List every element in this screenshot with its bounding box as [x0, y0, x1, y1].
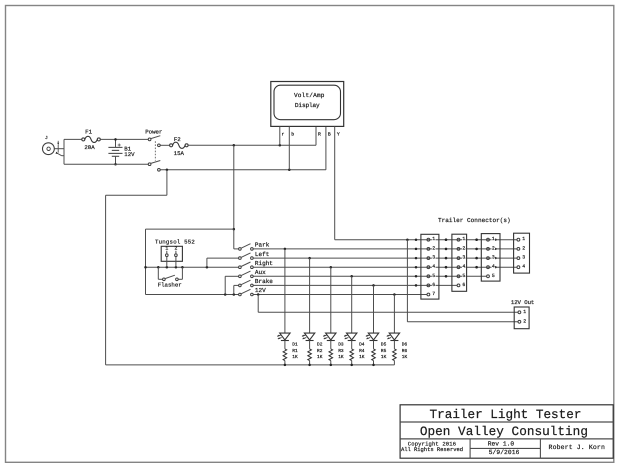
wire R4 to rail [351, 361, 353, 365]
junction dots after connector 3 pins [494, 239, 496, 269]
wire R6 to rail [393, 361, 395, 365]
display pin r wire [279, 126, 281, 145]
svg-text:F2: F2 [174, 136, 181, 143]
wire row 7 to connectors [253, 294, 427, 296]
junction return rail / ground drop [166, 169, 169, 172]
svg-text:5: 5 [432, 273, 435, 279]
svg-text:1K: 1K [338, 355, 344, 360]
LED D2 branch wire [309, 258, 311, 333]
svg-text:Flasher: Flasher [158, 281, 182, 288]
wire D3 to R3 [330, 341, 332, 349]
svg-text:J: J [45, 136, 48, 141]
switch Brake [239, 278, 274, 287]
wire ground return loop to LED rail [106, 170, 167, 365]
wire Aux switch feed riser [225, 276, 238, 294]
wire jack tip to junction [54, 148, 64, 150]
labels D3 R3 1K [338, 342, 344, 361]
labels D1 R1 1K [292, 343, 298, 361]
svg-text:5/9/2016: 5/9/2016 [489, 449, 520, 456]
svg-text:7: 7 [432, 291, 435, 297]
connector P2 (6-pin) [452, 234, 467, 291]
svg-text:5: 5 [462, 273, 465, 279]
svg-text:Park: Park [255, 242, 270, 249]
svg-text:12V Out: 12V Out [511, 299, 535, 306]
LED D4 [344, 333, 357, 340]
wire row 6 to connectors [253, 284, 457, 286]
svg-text:Open Valley Consulting: Open Valley Consulting [420, 424, 588, 439]
svg-text:1K: 1K [381, 355, 387, 360]
wire row1 to 12V-Out pin 2 [407, 240, 518, 322]
wire top rail to fuse F1 [64, 138, 82, 140]
switch Left [239, 251, 270, 260]
connector P3 (5-pin) [481, 234, 500, 282]
LED D5 [366, 333, 379, 340]
svg-text:r: r [282, 133, 285, 138]
junction flasher row taps [144, 266, 208, 269]
wire D2 to R2 [309, 341, 311, 349]
wire bottom feed row to 12V switch [146, 294, 239, 296]
svg-text:R1: R1 [292, 349, 298, 354]
svg-text:D5: D5 [381, 343, 387, 348]
junction bottom feed / Aux riser [224, 293, 227, 296]
LED D1 branch wire [284, 249, 286, 333]
LED D4 branch wire [351, 276, 353, 333]
svg-text:12V: 12V [255, 287, 266, 294]
svg-text:D6: D6 [402, 342, 408, 348]
svg-text:Tungsol 552: Tungsol 552 [155, 238, 195, 245]
svg-text:1: 1 [523, 309, 526, 315]
switch Aux [239, 269, 267, 278]
wire power switch to fuse F2 [160, 144, 169, 146]
wire left branch to flasher feed [146, 229, 234, 294]
svg-text:B: B [328, 132, 331, 138]
svg-text:Robert J. Korn: Robert J. Korn [549, 444, 605, 451]
svg-text:1K: 1K [317, 355, 323, 360]
svg-text:1: 1 [492, 236, 495, 242]
svg-text:3: 3 [432, 255, 435, 261]
junction F2 rail / feed down [233, 144, 236, 147]
wire flasher pin 2 to row [175, 257, 177, 268]
svg-text:D2: D2 [317, 342, 323, 348]
svg-text:b: b [291, 132, 294, 138]
LED D6 [387, 333, 400, 340]
connector P1 (7-pin) [421, 234, 439, 299]
svg-text:1K: 1K [402, 355, 408, 360]
labels D4 R4 1K [359, 343, 365, 361]
svg-text:1: 1 [462, 236, 465, 242]
svg-text:5: 5 [492, 273, 495, 279]
svg-text:2: 2 [432, 245, 435, 251]
wire F2 rail to display pin R [188, 144, 316, 146]
svg-text:D3: D3 [338, 342, 344, 348]
svg-text:Left: Left [255, 251, 269, 258]
connector P5 12V Out [511, 299, 535, 329]
wire 12V switched to 12V-Out pin 1 [258, 295, 518, 313]
resistor R5 [372, 349, 376, 361]
wire row 3 to connectors [253, 257, 517, 259]
svg-text:1K: 1K [359, 355, 365, 360]
svg-text:3: 3 [462, 255, 465, 261]
svg-text:4: 4 [462, 264, 465, 270]
svg-text:D1: D1 [292, 343, 298, 348]
wire R3 to rail [330, 361, 332, 365]
svg-text:R6: R6 [402, 348, 408, 354]
resistor R1 [283, 349, 287, 361]
junction row1 / 12V-out drop [406, 238, 409, 241]
svg-text:6: 6 [432, 282, 435, 288]
svg-text:1: 1 [432, 236, 435, 242]
svg-text:4: 4 [522, 264, 525, 270]
flasher module FL1 Tungsol 552 [155, 238, 195, 261]
wire F1 to power switch [100, 138, 148, 140]
wire LED bottom rail [106, 364, 395, 366]
junction station dots at x416 [415, 238, 418, 286]
labels D5 R5 1K [381, 343, 387, 361]
battery B1 [108, 139, 135, 164]
svg-text:Trailer Connector(s): Trailer Connector(s) [438, 217, 511, 224]
resistor R2 [308, 349, 312, 361]
svg-text:R: R [318, 132, 321, 138]
connector J1 power jack [43, 136, 62, 156]
svg-text:6: 6 [462, 282, 465, 288]
display pin b wire [288, 126, 290, 169]
junction battery bottom [114, 163, 117, 166]
resistor R6 [393, 349, 397, 361]
junction 12V row / 12V-out tap [257, 293, 260, 296]
svg-text:1: 1 [165, 246, 168, 252]
labels D6 R6 1K [402, 342, 408, 361]
svg-text:4: 4 [432, 264, 435, 270]
wire flasher row (Right switch feed) [146, 266, 239, 268]
svg-text:R4: R4 [359, 349, 365, 354]
junction dots between connector 2 and 3 [475, 238, 478, 268]
switch Right [239, 260, 273, 269]
LED branch taps [284, 248, 396, 296]
switch Park [239, 242, 270, 251]
wire row 4 to connectors [253, 266, 517, 268]
svg-text:R5: R5 [381, 349, 387, 354]
svg-text:Power: Power [145, 128, 162, 135]
svg-text:2: 2 [492, 245, 495, 251]
wire R2 to rail [309, 361, 311, 365]
svg-text:All Rights Reserved: All Rights Reserved [401, 446, 463, 453]
LED D1 [277, 333, 290, 340]
label copyright [401, 441, 463, 453]
fuse F1 [82, 129, 101, 151]
junction LED rail taps [284, 364, 375, 367]
svg-text:Display: Display [295, 102, 320, 109]
junction F2 rail / display pin r [279, 144, 282, 147]
svg-text:Right: Right [255, 260, 273, 267]
wire row 2 to connectors [253, 248, 517, 250]
svg-text:4: 4 [492, 264, 495, 270]
switch S2 Flasher bypass [158, 267, 183, 288]
wire D6 to R6 [393, 341, 395, 349]
svg-text:Trailer Light Tester: Trailer Light Tester [430, 407, 582, 422]
connector P4 (4-pin) [514, 233, 530, 273]
LED D5 branch wire [373, 285, 375, 333]
wire Brake switch feed riser [234, 285, 239, 294]
wire row 1 to connectors [335, 239, 517, 241]
svg-text:R3: R3 [338, 348, 344, 354]
svg-text:R2: R2 [317, 348, 323, 354]
fuse F2 [170, 136, 189, 157]
svg-text:12V: 12V [124, 151, 135, 158]
wire power return rail to display pin B [160, 169, 326, 171]
svg-text:2: 2 [523, 318, 526, 324]
display pin labels r b R B Y [282, 132, 340, 138]
svg-text:Volt/Amp: Volt/Amp [294, 92, 325, 99]
svg-text:D4: D4 [359, 343, 365, 348]
svg-text:3: 3 [492, 255, 495, 261]
svg-text:Rev 1.0: Rev 1.0 [488, 440, 515, 447]
LED D3 [323, 333, 336, 340]
LED D3 branch wire [330, 267, 332, 333]
title block [400, 405, 613, 458]
wire jack vertical [63, 139, 65, 164]
resistor R3 [329, 349, 333, 361]
junction feed / left branch [233, 228, 236, 231]
switch S1 Power (DPST) [145, 128, 162, 171]
labels D2 R2 1K [317, 342, 323, 361]
wire Left switch feed riser [207, 258, 239, 267]
svg-text:Y: Y [337, 132, 340, 138]
svg-text:15A: 15A [174, 150, 185, 157]
wire R1 to rail [284, 361, 286, 365]
LED D6 branch wire [393, 295, 395, 334]
svg-text:Aux: Aux [255, 269, 266, 276]
svg-text:2: 2 [522, 245, 525, 251]
display pin Y wire to row 1 [334, 126, 336, 239]
LED D2 [302, 333, 315, 340]
svg-text:2: 2 [462, 245, 465, 251]
junction return rail / display pin b [288, 169, 291, 172]
wire flasher pin 1 to row [166, 257, 168, 268]
svg-text:2: 2 [174, 246, 177, 252]
wire jack sleeve stub [62, 155, 64, 157]
wire row 5 to connectors [253, 275, 486, 277]
op display U1 Volt/Amp Display [271, 82, 344, 127]
svg-text:Brake: Brake [255, 278, 273, 285]
junction battery top [114, 138, 117, 141]
wire D4 to R4 [351, 341, 353, 349]
junction bottom feed / Brake riser [233, 293, 236, 296]
wire D1 to R1 [284, 341, 286, 349]
wire R5 to rail [373, 361, 375, 365]
svg-text:3: 3 [522, 255, 525, 261]
svg-text:F1: F1 [85, 129, 92, 136]
svg-text:1K: 1K [292, 355, 298, 360]
switch 12V [239, 287, 267, 296]
junction dots between connector 1 and 2 [445, 238, 448, 277]
wire bottom rail [64, 163, 148, 165]
wire feed from F2 down to Park switch [234, 145, 239, 249]
resistor R4 [350, 349, 354, 361]
svg-text:20A: 20A [84, 144, 95, 151]
wire D5 to R5 [373, 341, 375, 349]
svg-text:1: 1 [522, 236, 525, 242]
